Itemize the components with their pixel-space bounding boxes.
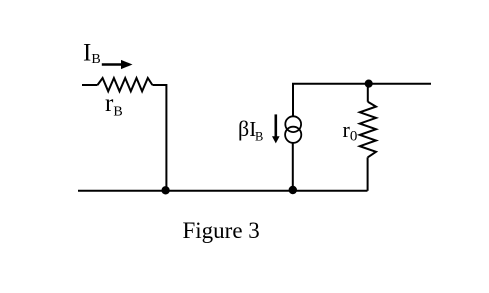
wire: vertical drop from rB to bottom rail: [165, 84, 167, 191]
arrow: beta-IB direction (down): [274, 114, 277, 137]
svg-text:Figure 3: Figure 3: [183, 218, 260, 243]
current source (two overlapping circles): [285, 116, 301, 132]
svg-text:r0: r0: [343, 117, 358, 144]
wire: current source top lead: [292, 84, 294, 117]
wire: rB right lead: [152, 84, 166, 86]
wire: top rail: [292, 83, 431, 85]
wire: r0 bottom lead: [367, 157, 369, 190]
wire: bottom rail: [78, 190, 368, 192]
svg-text:βIB: βIB: [238, 116, 263, 144]
svg-text:rB: rB: [105, 90, 123, 120]
resistor R1 (rB zigzag): [98, 78, 153, 91]
node: junction dot under current source: [289, 186, 297, 194]
wire: current source bottom lead: [292, 143, 294, 191]
resistor R2 (r0 zigzag): [360, 102, 376, 158]
arrow: IB direction (right): [102, 63, 123, 66]
svg-text:IB: IB: [83, 40, 101, 67]
wire: r0 top lead: [367, 84, 369, 102]
node: junction dot left on bottom rail: [161, 186, 169, 194]
wire: left lead into rB: [82, 84, 98, 86]
node: junction dot on top rail: [365, 80, 373, 88]
